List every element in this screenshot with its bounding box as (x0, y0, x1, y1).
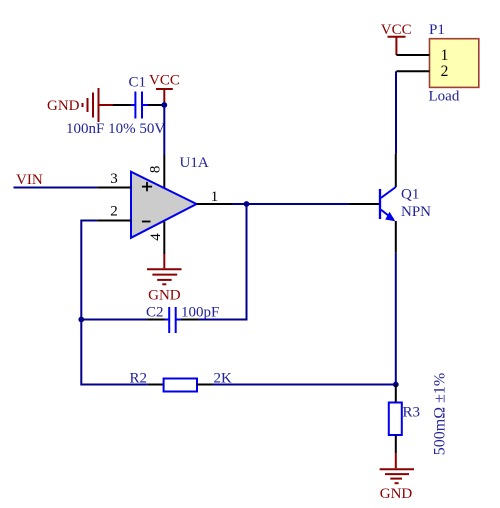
pin 1 (output stub, black) (197, 203, 233, 205)
svg-text:Q1: Q1 (401, 187, 419, 203)
wire (output to transistor base, blue) (247, 203, 350, 205)
junction (feedback node at C2) (78, 317, 84, 323)
svg-text:VCC: VCC (149, 73, 180, 89)
power VCC (top right) (388, 37, 406, 55)
plus sign (142, 182, 152, 191)
pin 1 of P1 (black) (396, 54, 429, 56)
svg-text:GND: GND (47, 98, 80, 114)
svg-text:VIN: VIN (16, 172, 43, 188)
transistor Q1 (380, 187, 396, 220)
wire (emitter down to R2/R3 node, blue) (395, 253, 397, 385)
pin 8 (op-amp power pin, black) (163, 155, 165, 188)
ground GND (bottom right) (380, 453, 414, 483)
capacitor C2 (165, 307, 182, 333)
minus sign (142, 221, 151, 223)
resistor R3 (389, 403, 402, 436)
pin stub R2 right (black) (197, 384, 213, 386)
svg-text:4: 4 (148, 233, 164, 241)
pin 3 (black stub) (97, 187, 131, 189)
svg-text:3: 3 (110, 171, 118, 187)
svg-text:R3: R3 (403, 405, 421, 421)
svg-text:2: 2 (441, 63, 449, 80)
wire (junction to C2 left, blue then black) (81, 319, 147, 321)
wire (GND to C1, black) (113, 104, 132, 106)
op-amp U1A (131, 172, 197, 238)
wire VIN (blue) (14, 187, 98, 189)
svg-text:Load: Load (429, 89, 460, 105)
pin stub R3 top (black) (395, 385, 397, 403)
pin 4 (op-amp power pin, black) (163, 222, 165, 254)
pin 2 of P1 (black) (396, 70, 429, 72)
svg-text:VCC: VCC (381, 22, 412, 38)
capacitor C1 (131, 92, 148, 119)
svg-text:P1: P1 (429, 22, 445, 38)
svg-text:8: 8 (147, 166, 163, 174)
svg-text:1: 1 (211, 189, 219, 205)
svg-text:C2: C2 (146, 305, 164, 321)
svg-text:500mΩ ±1%: 500mΩ ±1% (432, 373, 449, 455)
svg-text:100nF 10% 50V: 100nF 10% 50V (66, 121, 165, 137)
wire (feedback down and to R2, blue) (81, 320, 147, 385)
svg-text:GND: GND (148, 288, 181, 304)
junction (R2/R3/emitter node) (393, 382, 399, 388)
wire (P1 pin2 down to transistor collector, blue) (395, 71, 397, 153)
svg-text:GND: GND (380, 486, 413, 502)
pin stub R3 bottom (black) (395, 435, 397, 453)
ground GND (top-left, horizontal earth) (83, 88, 114, 122)
junction (output node) (244, 201, 250, 207)
svg-text:U1A: U1A (180, 155, 209, 171)
junction (C1/VCC/pin8 node) (161, 102, 167, 108)
svg-text:R2: R2 (130, 370, 148, 386)
svg-text:100pF: 100pF (181, 305, 219, 321)
svg-text:C1: C1 (129, 75, 147, 91)
wire (junction down to op-amp pin 8, blue) (163, 105, 165, 155)
collector pin (black) (395, 154, 397, 187)
connector P1 (430, 39, 479, 88)
emitter arrow of Q1 (385, 212, 395, 222)
svg-text:NPN: NPN (401, 204, 431, 220)
pin 2 (black stub) (97, 220, 131, 222)
pin stub R2 left (black) (148, 384, 164, 386)
base pin (black) (350, 203, 380, 205)
svg-text:1: 1 (441, 47, 449, 64)
emitter pin (black) (395, 221, 397, 253)
svg-text:2: 2 (110, 204, 118, 220)
power VCC (above C1) (156, 89, 173, 105)
wire (C2 right to corner and up to output node, black then blue) (181, 319, 198, 321)
wire (R2 to emitter rail, blue) (213, 384, 396, 386)
wire (C1 to VCC junction, black) (148, 104, 164, 106)
wire (pin 2 to feedback corner, blue) (81, 221, 97, 320)
ground GND (below op-amp) (147, 254, 182, 284)
wire (pin1 to junction, blue) (232, 203, 247, 205)
resistor R2 (164, 379, 197, 392)
